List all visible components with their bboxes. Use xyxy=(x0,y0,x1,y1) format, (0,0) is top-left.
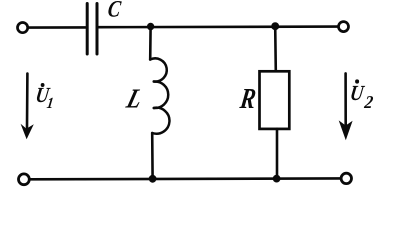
svg-text:L: L xyxy=(123,83,147,114)
svg-text:R: R xyxy=(237,83,257,115)
svg-text:C: C xyxy=(106,0,123,22)
svg-text:U: U xyxy=(348,82,366,106)
svg-text:2: 2 xyxy=(362,93,374,113)
svg-text:1: 1 xyxy=(46,95,55,112)
